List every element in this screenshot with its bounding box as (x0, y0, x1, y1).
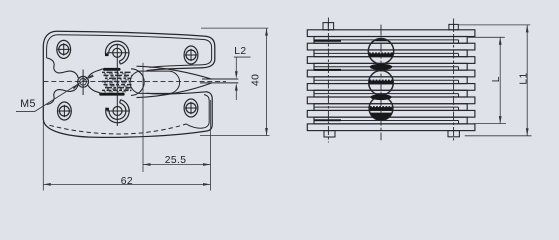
right view: top-right tab (449, 24, 458, 29)
spring barrel arc (131, 69, 144, 96)
dimension L1 extension lines (458, 24, 530, 26)
spring serration scribbles (102, 71, 132, 73)
right view: screw column centerline (380, 25, 382, 141)
right view: tab centerline left (327, 18, 329, 143)
M5 pivot circle (78, 76, 89, 87)
horizontal dashed centerline (44, 80, 227, 82)
dimension L line (499, 37, 501, 123)
left view: scallop edge lower-left (47, 85, 79, 105)
screw top-left (57, 40, 71, 58)
right view: screw circle middle (369, 71, 394, 96)
right view: dark lower half of bottom screw (370, 113, 392, 121)
right view: dark serration segments left side (314, 40, 341, 42)
right view: serration band bottom screw (370, 106, 393, 110)
screw bottom-left (58, 102, 72, 120)
right view: dark lens between screws 1-2 (370, 64, 392, 70)
right view: serration band top screw (369, 52, 394, 56)
right view: laminated plate stack (307, 30, 475, 37)
right view: serration band middle screw (369, 80, 393, 85)
screw top-right (184, 46, 198, 64)
right view: top-left tab (323, 23, 334, 30)
dimension 25.5 extension lines (142, 63, 144, 172)
L2 leader vertical + arrows (235, 57, 237, 71)
left view: tongue lower edge (137, 83, 212, 98)
svg-text:40: 40 (250, 74, 261, 86)
left view: outer outline of lower clamp plate (43, 92, 212, 138)
svg-text:L: L (491, 76, 502, 82)
left view: inner line lower-right corner (187, 95, 210, 129)
right view: bottom-right tab (448, 131, 459, 137)
left view: tongue upper edge (137, 66, 212, 79)
svg-text:62: 62 (121, 176, 133, 187)
left view: outer outline of upper clamp plate (43, 31, 215, 119)
left view: neck curve lower (circle to spring) (88, 85, 103, 94)
spring top bar (103, 68, 121, 71)
dimension 62 arrows (43, 183, 51, 186)
right view: screw circle bottom (369, 97, 393, 121)
C-slot around lower middle screw (106, 100, 129, 123)
C-slot around upper middle screw (105, 41, 128, 64)
right view: dark cap above top screw (372, 39, 391, 43)
clamp screw upper middle (113, 48, 122, 57)
svg-text:L1: L1 (518, 72, 529, 84)
clamp screw lower middle (113, 107, 122, 116)
left view: neck curve upper (circle to spring) (88, 69, 103, 78)
left view: inner offset line of upper plate (47, 35, 212, 68)
dimension L1 line (526, 25, 528, 136)
dimension 40 extension lines (201, 27, 268, 29)
tongue tip upper edge line (202, 78, 238, 80)
dimension 25.5 line (143, 164, 211, 166)
dimension 25.5 arrows (143, 163, 151, 166)
spring bottom bar (99, 93, 125, 96)
dimension L arrows (499, 37, 502, 45)
left view: lower plate top edge (147, 92, 207, 94)
M5 leader line (35, 76, 92, 112)
dimension L extension lines (468, 36, 505, 38)
vertical centerline through middle screws (116, 44, 118, 126)
right view: bottom-left tab (324, 131, 335, 137)
svg-text:25.5: 25.5 (165, 155, 187, 166)
dimension 62 extension line left (42, 122, 44, 191)
tongue tip lower edge line (200, 82, 238, 84)
left view: scallop edge upper-left (47, 58, 79, 78)
svg-text:M5: M5 (20, 98, 36, 110)
right view: tab centerline right (453, 19, 455, 143)
svg-text:L2: L2 (234, 46, 246, 57)
right view: dark lens between screws 2-3 (370, 94, 391, 100)
M5 leader arrowheads (72, 85, 78, 90)
oval hole (stadium) in clamp tongue (130, 71, 180, 93)
right view: screw circle top (368, 39, 393, 64)
dimension 62 line (43, 183, 210, 185)
dimension L1 arrows (526, 25, 529, 33)
screw bottom-right (184, 99, 198, 117)
left view: hidden dashed edge of lower plate (50, 124, 187, 134)
dimension 40 line (266, 28, 268, 135)
dimension 40 arrows (265, 28, 268, 35)
